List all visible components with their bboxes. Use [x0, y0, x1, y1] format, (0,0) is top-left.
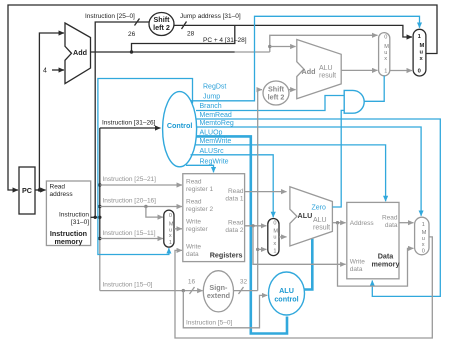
mux write register (RegDst mux): [164, 210, 174, 247]
svg-text:x: x: [169, 233, 172, 239]
wire PC+4 riser to branch mux and branch adder: [268, 35, 377, 52]
wire mux output to write register: [174, 228, 182, 230]
svg-text:register 1: register 1: [186, 186, 213, 193]
svg-text:u: u: [420, 50, 424, 56]
svg-text:1: 1: [169, 240, 172, 246]
svg-text:Add: Add: [302, 67, 316, 76]
wire RegWrite control to registers: [186, 158, 229, 172]
svg-text:register 2: register 2: [186, 206, 213, 213]
svg-text:ALU: ALU: [319, 65, 333, 72]
svg-text:Registers: Registers: [210, 251, 243, 260]
svg-text:Read: Read: [186, 179, 202, 186]
svg-text:RegDst: RegDst: [203, 84, 226, 91]
op-amp ALU main: [290, 187, 333, 246]
svg-text:address: address: [50, 191, 74, 198]
wire instruction [31-0] output: [91, 216, 102, 219]
svg-text:Instruction [25–0]: Instruction [25–0]: [85, 13, 135, 20]
wire Instruction [15-0] to sign extend: [100, 279, 203, 295]
svg-text:26: 26: [128, 31, 136, 38]
AND gate branch: [344, 90, 364, 113]
svg-text:ALUSrc: ALUSrc: [200, 148, 225, 155]
svg-text:Instruction [5–0]: Instruction [5–0]: [186, 320, 232, 327]
wire ALU control output to ALU: [304, 239, 313, 290]
wire PC+4 main run: [91, 50, 270, 53]
svg-text:left 2: left 2: [153, 23, 170, 32]
wire shift left 2 output to branch adder: [289, 89, 296, 91]
svg-text:data 1: data 1: [225, 196, 243, 203]
wire MemtoReg control to right mux select: [197, 120, 422, 216]
svg-text:PC: PC: [22, 186, 32, 195]
svg-text:Instruction [31–26]: Instruction [31–26]: [102, 120, 156, 127]
svg-text:0: 0: [418, 68, 421, 74]
shift left 2 (jump): [149, 13, 174, 36]
svg-text:Jump: Jump: [203, 94, 220, 101]
wire PC output to instruction memory: [35, 188, 46, 191]
wire Jump control to jump mux select: [191, 16, 420, 101]
wire Instruction [5-0] to ALU control: [183, 291, 267, 328]
wire ALU result bypass to right mux input 0: [338, 223, 414, 286]
wire Instruction [15-11] to mux input 1: [100, 230, 163, 239]
svg-text:Instruction [15–11]: Instruction [15–11]: [103, 230, 156, 237]
wire read data to right mux input 1: [399, 222, 414, 224]
svg-text:28: 28: [187, 31, 195, 38]
wire sign extend output: [234, 279, 258, 295]
wire ALUOp control to ALU control unit: [197, 129, 288, 333]
svg-text:0: 0: [273, 221, 276, 227]
svg-text:control: control: [274, 295, 298, 304]
wire Instruction [20-16] to read register 2: [100, 197, 182, 208]
svg-text:ALU: ALU: [313, 217, 327, 224]
svg-text:x: x: [273, 241, 276, 247]
svg-text:data: data: [350, 266, 363, 273]
svg-text:4: 4: [43, 68, 47, 75]
svg-text:Write: Write: [186, 244, 201, 251]
PC: [19, 167, 35, 214]
node 4 constant input: [43, 68, 64, 75]
svg-text:memory: memory: [372, 260, 400, 269]
wire PC+4 [31-28] branch to jump address: [132, 25, 247, 52]
svg-text:1: 1: [384, 69, 387, 75]
svg-text:0: 0: [384, 35, 387, 41]
svg-text:1: 1: [422, 222, 425, 228]
wire read data 2 branch to data memory write data: [253, 226, 346, 264]
svg-text:extend: extend: [207, 291, 230, 300]
svg-text:memory: memory: [55, 237, 83, 246]
svg-text:MemtoReg: MemtoReg: [200, 120, 234, 127]
svg-text:Write: Write: [186, 219, 201, 226]
svg-text:PC + 4 [31–28]: PC + 4 [31–28]: [203, 37, 247, 44]
wire branch mux output to jump mux input 0: [390, 70, 412, 72]
svg-text:register: register: [186, 226, 209, 233]
svg-text:32: 32: [240, 279, 248, 286]
svg-text:result: result: [313, 225, 330, 232]
wire branch adder output to branch mux input 1: [341, 69, 377, 71]
svg-text:0: 0: [169, 213, 172, 219]
svg-text:Instruction [15–0]: Instruction [15–0]: [103, 281, 153, 288]
wire Instruction [25-21] to read register 1: [100, 176, 182, 185]
svg-text:result: result: [319, 73, 336, 80]
svg-text:16: 16: [188, 279, 196, 286]
svg-text:0: 0: [422, 249, 425, 255]
wire jump address [31-0] to jump mux input 1: [174, 13, 412, 38]
svg-text:Instruction [20–16]: Instruction [20–16]: [103, 197, 157, 204]
wire ALUSrc mux output to ALU: [279, 236, 287, 238]
op-amp Add (PC+4 adder): [65, 23, 91, 84]
register file Registers: [183, 174, 245, 262]
svg-text:Read: Read: [50, 184, 66, 191]
svg-text:MemWrite: MemWrite: [200, 138, 232, 145]
mux ALU source (ALUSrc mux): [268, 219, 279, 256]
wire ALU result to data memory address: [332, 221, 345, 224]
svg-text:Read: Read: [186, 199, 202, 206]
wire PC feedback from jump mux output around top to PC input: [8, 5, 437, 190]
svg-text:Add: Add: [73, 48, 87, 57]
svg-text:RegWrite: RegWrite: [200, 158, 229, 165]
svg-text:Read: Read: [228, 220, 244, 227]
wire Branch control to AND gate: [196, 96, 344, 111]
wire MemWrite control to data memory top: [196, 138, 386, 201]
op-amp Add branch adder: [297, 40, 341, 99]
svg-text:Read: Read: [382, 215, 398, 222]
wire AND output to branch mux select: [364, 76, 384, 102]
svg-text:u: u: [273, 235, 276, 241]
svg-text:[31–0]: [31–0]: [71, 219, 89, 226]
svg-text:1: 1: [273, 249, 276, 255]
wire ALUSrc control to ALU mux select: [191, 148, 274, 217]
wire PC to Add input: [39, 33, 64, 190]
wire sign-extend riser to shift-left-2 and ALU mux input 1: [256, 90, 266, 291]
svg-text:data: data: [385, 222, 398, 229]
svg-text:Zero: Zero: [312, 205, 327, 212]
svg-text:data 2: data 2: [225, 227, 243, 234]
data memory: [347, 202, 400, 278]
op-amp Control unit: [163, 92, 197, 167]
wire read data 2 to mux input 0: [245, 224, 267, 227]
instruction memory: [46, 181, 90, 246]
wire MemRead control to data memory bottom: [197, 112, 441, 297]
wire Instruction [31-26] to Control: [100, 120, 161, 129]
svg-text:Address: Address: [350, 220, 375, 227]
svg-text:Instruction [25–21]: Instruction [25–21]: [103, 176, 157, 183]
svg-text:Instruction: Instruction: [59, 212, 89, 219]
svg-text:x: x: [422, 242, 425, 248]
svg-text:data: data: [186, 251, 199, 258]
op-amp ALU control: [269, 272, 305, 315]
svg-text:x: x: [384, 56, 387, 62]
svg-text:ALU: ALU: [298, 211, 313, 220]
mux MemtoReg (right mux): [415, 217, 429, 255]
wire Zero to AND gate: [332, 110, 344, 207]
svg-text:M: M: [420, 43, 425, 49]
mux jump (final PC mux): [413, 29, 426, 76]
op-amp Sign-extend: [203, 271, 233, 312]
wire write-back from right mux to registers write data: [175, 237, 432, 338]
svg-text:Jump address [31–0]: Jump address [31–0]: [180, 13, 241, 20]
wire Instruction [25-0] up to shift left 2: [85, 13, 149, 217]
shift left 2 (branch): [263, 81, 289, 105]
svg-text:Branch: Branch: [200, 103, 222, 110]
wire Instruction [20-16] branch to mux input 0: [146, 207, 163, 218]
wire instruction bus vertical: [98, 128, 101, 291]
svg-text:MemRead: MemRead: [200, 112, 232, 119]
wire read data 1 to ALU: [245, 191, 287, 193]
mux branch (PCSrc mux): [379, 33, 390, 76]
svg-text:Read: Read: [228, 188, 244, 195]
svg-text:Control: Control: [167, 121, 193, 130]
wire RegDst control to write-register mux select: [98, 79, 226, 255]
svg-text:left 2: left 2: [268, 93, 285, 102]
svg-text:ALUOp: ALUOp: [200, 129, 223, 136]
svg-text:Write: Write: [350, 259, 365, 266]
